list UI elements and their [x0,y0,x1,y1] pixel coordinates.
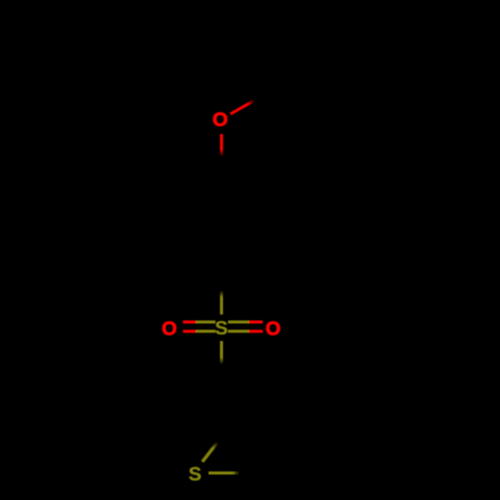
svg-text:S: S [215,318,228,340]
svg-text:S: S [188,464,201,486]
svg-text:O: O [266,318,281,340]
svg-text:O: O [162,318,177,340]
svg-text:O: O [213,109,228,131]
